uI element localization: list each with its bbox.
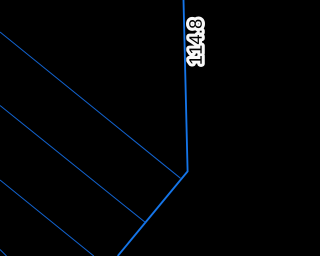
parcel boundary line 2 (middle diagonal) — [0, 106, 145, 223]
parcel boundary line 1 (top diagonal) — [0, 32, 180, 178]
road/boundary: vertical line bending to lower-left diagonal — [118, 0, 188, 256]
parcel boundary line 3 (lower diagonal) — [0, 180, 94, 256]
elevation label "114.8" (dark text, white halo, rotated -90deg) — [189, 20, 202, 64]
parcel boundary line 4 (bottom-left corner segment) — [0, 250, 7, 256]
